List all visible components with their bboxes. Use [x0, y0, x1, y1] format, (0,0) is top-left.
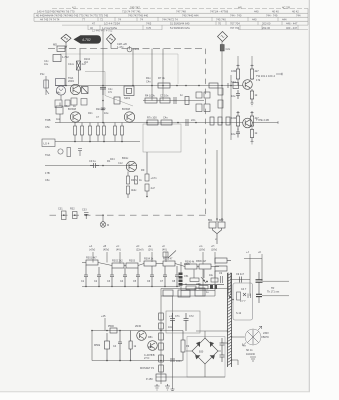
- svg-text:10u: 10u: [209, 274, 214, 277]
- svg-text:707 704: 707 704: [230, 26, 240, 30]
- table line 6 partial: [88, 29, 162, 31]
- svg-text:(4V): (4V): [162, 249, 167, 252]
- wire y165.5: [45, 165, 137, 167]
- wire from D1: [65, 42, 67, 48]
- vertical wire x103: [102, 29, 104, 123]
- svg-text:740 747/745 440: 740 747/745 440: [128, 14, 149, 18]
- svg-text:440: 440: [254, 9, 259, 13]
- svg-text:17B: 17B: [45, 171, 50, 175]
- diamond D3: [218, 32, 228, 42]
- svg-text:B01: B01: [208, 219, 213, 222]
- svg-text:R21: R21: [88, 112, 93, 115]
- svg-text:(16V): (16V): [211, 249, 217, 252]
- svg-text:R4 100k: R4 100k: [145, 94, 155, 98]
- svg-text:110/230: 110/230: [246, 353, 255, 356]
- svg-text:C9 1u: C9 1u: [89, 159, 96, 163]
- boxes top cluster: [163, 288, 205, 297]
- page edge bottom: [0, 391, 310, 393]
- table row text 2: [36, 14, 301, 18]
- svg-text:BD1x: BD1x: [122, 156, 129, 160]
- svg-text:R44: R44: [110, 158, 115, 161]
- dashed border bottom: [45, 214, 206, 216]
- label arrow 4-702: [74, 35, 102, 43]
- bottom bus left: [92, 360, 161, 362]
- caps row: [84, 265, 179, 287]
- svg-text:R303: R303: [129, 260, 136, 263]
- svg-text:744 - 749: 744 - 749: [266, 14, 278, 18]
- svg-text:47: 47: [92, 22, 95, 26]
- table row text 1: [37, 9, 299, 13]
- vertical wire x217: [216, 150, 218, 222]
- svg-text:12 446 447 4-702: 12 446 447 4-702: [92, 29, 113, 33]
- stage2 labels: [231, 116, 269, 136]
- small comp below switch: [250, 357, 256, 361]
- small antenna circle: [127, 47, 132, 52]
- svg-text:74: 74: [118, 18, 121, 22]
- svg-text:M56k: M56k: [94, 344, 101, 347]
- vertical wire x231: [230, 75, 232, 140]
- svg-text:1/2 4-4 72/54: 1/2 4-4 72/54: [104, 22, 120, 26]
- resistor row above y141 bus: [74, 123, 124, 142]
- left rail x92: [91, 331, 93, 361]
- wire out 1: [263, 280, 290, 282]
- pin labels: [89, 245, 217, 252]
- labels above R10: [146, 76, 165, 84]
- svg-text:77: 77: [82, 18, 85, 22]
- table line 4: [34, 20, 308, 22]
- svg-text:50Hz: 50Hz: [263, 336, 270, 339]
- grounds bottom: [155, 384, 175, 391]
- transistor T2: [70, 112, 80, 122]
- svg-text:P1x: P1x: [40, 72, 45, 76]
- svg-text:C4x: C4x: [146, 80, 151, 84]
- svg-text:R82: R82: [148, 346, 153, 349]
- svg-text:51 50/60/45 6x5x: 51 50/60/45 6x5x: [170, 26, 191, 30]
- left column box P: [56, 79, 66, 86]
- labels y117: [147, 116, 196, 123]
- svg-text:R81: R81: [148, 336, 153, 339]
- svg-text:140 4-702/745/748/749 7/6 770: 140 4-702/745/748/749 7/6 770: [37, 9, 75, 13]
- transistor T6 on y165: [126, 161, 136, 171]
- svg-text:100n: 100n: [176, 360, 182, 363]
- svg-text:100k: 100k: [231, 116, 237, 120]
- svg-text:40 440/444/44-74/745-74/7445-7: 40 440/444/44-74/745-74/7445-745 770 740…: [36, 14, 109, 18]
- table row text 3: [40, 18, 287, 22]
- svg-text:9 7 7: 9 7 7: [240, 300, 246, 303]
- right-of-border component grid: [196, 88, 223, 112]
- svg-text:(22eV): (22eV): [136, 249, 144, 252]
- svg-text:M: M: [107, 224, 109, 227]
- stage2 supply plus: [237, 111, 254, 114]
- svg-text:7c/5: 7c/5: [146, 26, 151, 30]
- svg-text:(45V): (45V): [103, 249, 109, 252]
- stage2 collector resistors: [236, 114, 253, 130]
- dashed border right: [205, 49, 207, 216]
- stage2 cap: [236, 129, 240, 138]
- svg-text:(+5V): (+5V): [89, 249, 95, 252]
- svg-text:C72: C72: [189, 315, 194, 318]
- screen box with diagonal: [85, 72, 133, 107]
- table row text 0: [72, 5, 290, 9]
- wire y165 components: cap: [90, 163, 99, 168]
- svg-text:C4 7: C4 7: [241, 288, 247, 291]
- long vertical wire x222: [221, 42, 223, 223]
- svg-text:744 74/72 74: 744 74/72 74: [162, 18, 178, 22]
- svg-text:74: 74: [140, 18, 143, 22]
- TR labels: [267, 287, 280, 294]
- svg-text:17k: 17k: [256, 78, 261, 82]
- chain labels: [86, 257, 195, 264]
- wire from D2: [110, 44, 112, 49]
- vertical wire x66: [65, 49, 67, 86]
- svg-text:400 - 447: 400 - 447: [286, 26, 298, 30]
- svg-text:Tb 171 xxx: Tb 171 xxx: [267, 291, 280, 294]
- feedback rect outline: [143, 124, 181, 152]
- left narrow switch element: [44, 76, 49, 95]
- svg-text:R7 4k: R7 4k: [158, 76, 165, 80]
- main bus y85.5: [55, 85, 243, 87]
- vertical comps bottom-left: [105, 331, 133, 361]
- left rail bottom block: [161, 289, 173, 389]
- dense regulator sub-circuit: [179, 273, 218, 290]
- svg-text:P-150: P-150: [146, 378, 153, 381]
- x161 column comps: [156, 313, 166, 381]
- bridge connections: [156, 331, 228, 377]
- components on bottom dashed rail: [62, 211, 106, 227]
- dark component on x222 wire top: [220, 45, 224, 52]
- svg-text:BC548: BC548: [68, 107, 76, 111]
- svg-text:100k: 100k: [231, 69, 237, 73]
- resistor chain row: [86, 260, 211, 269]
- svg-text:47n: 47n: [108, 91, 113, 94]
- mains transformer core: [228, 273, 232, 367]
- svg-text:C31: C31: [58, 208, 63, 211]
- svg-text:444: 444: [282, 18, 287, 22]
- diamond D2: [107, 34, 116, 44]
- transistor T1: [70, 84, 80, 94]
- caps right of bridge: [220, 338, 225, 362]
- svg-text:R32: R32: [70, 208, 75, 211]
- svg-text:4-702: 4-702: [82, 38, 91, 42]
- left column circle: [56, 86, 65, 95]
- svg-text:44 745 74 74 74: 44 745 74 74 74: [40, 18, 60, 22]
- svg-text:R304 1k: R304 1k: [144, 258, 154, 261]
- svg-text:1-702: 1-702: [62, 55, 69, 59]
- svg-text:(16V): (16V): [199, 249, 205, 252]
- table row text 5: [90, 26, 298, 30]
- svg-text:C1xx: C1xx: [68, 62, 75, 66]
- pin stems: [93, 252, 215, 265]
- svg-text:R301 4k7: R301 4k7: [86, 257, 97, 260]
- chain connecting wires: [82, 263, 219, 267]
- svg-text:2N30: 2N30: [135, 325, 142, 328]
- svg-text:R302 2k2: R302 2k2: [112, 260, 123, 263]
- wire out 2: [262, 295, 289, 297]
- S-switch box (double square): [124, 86, 134, 96]
- transistor T3: [124, 112, 134, 122]
- wire y141.5: [55, 141, 140, 143]
- comp at 228-237 on bus1: [228, 83, 239, 89]
- svg-text:C33: C33: [82, 209, 87, 212]
- table line 2: [34, 12, 308, 14]
- right cluster comps inside box: [237, 292, 251, 300]
- transistor T4: [243, 80, 253, 90]
- small circle + parts below LS: [58, 148, 82, 157]
- svg-text:C9 4n7: C9 4n7: [236, 273, 245, 276]
- stage1 emitter resistor: [250, 89, 253, 103]
- svg-text:(4V): (4V): [116, 249, 121, 252]
- svg-text:4k7: 4k7: [255, 69, 260, 73]
- stage2 emitter resistor: [250, 128, 253, 142]
- left cluster small parts: [55, 95, 70, 107]
- stage1 cap: [236, 90, 240, 99]
- svg-text:R505: R505: [184, 263, 190, 266]
- svg-text:C5x: C5x: [45, 125, 50, 129]
- svg-text:SK 11: SK 11: [246, 349, 253, 352]
- svg-text:2003: 2003: [68, 79, 74, 83]
- box with X beside T1: [82, 87, 89, 94]
- left +V labels: [101, 314, 173, 318]
- transistor T7: [137, 331, 147, 341]
- vertical wire x80: [79, 49, 81, 61]
- inner faint boundary: [60, 54, 178, 84]
- transistor T8: [148, 341, 158, 351]
- resistors below T6: [127, 172, 138, 199]
- svg-text:744 - 740: 744 - 740: [230, 14, 242, 18]
- svg-text:C71: C71: [175, 315, 180, 318]
- stage1 collector resistors: [236, 67, 253, 86]
- vertical wire x163: [162, 49, 164, 101]
- cap on wire y279: [240, 277, 242, 283]
- svg-text:R1: R1: [107, 159, 111, 163]
- x183 column: [181, 331, 185, 361]
- svg-text:B30: B30: [199, 351, 204, 354]
- transformer stubs: [221, 303, 245, 366]
- svg-text:202-00: 202-00: [262, 22, 271, 26]
- svg-text:MOSFET P1: MOSFET P1: [140, 367, 155, 370]
- cluster text: [40, 72, 76, 108]
- svg-text:S201: S201: [124, 96, 131, 100]
- svg-text:TW 101.1: TW 101.1: [256, 74, 268, 78]
- table line 5: [62, 24, 308, 26]
- table top dashed line: [52, 8, 308, 10]
- bus2 labels: [145, 93, 183, 98]
- top cluster wires: [161, 269, 230, 296]
- svg-text:TYPE 2.2B: TYPE 2.2B: [256, 118, 269, 122]
- svg-text:+K: +K: [258, 251, 261, 254]
- svg-text:70: 70: [218, 22, 221, 26]
- svg-text:446 - 447: 446 - 447: [286, 22, 298, 26]
- svg-text:R506 4k7: R506 4k7: [196, 260, 207, 263]
- labels above T2 T3: [68, 107, 130, 115]
- caps labels: [81, 280, 176, 283]
- svg-text:TDA: TDA: [45, 153, 50, 157]
- svg-text:4.2: 4.2: [72, 5, 76, 9]
- resistor on wire: [110, 328, 117, 333]
- svg-text:230V: 230V: [263, 332, 269, 335]
- cap on x172 rail: [170, 359, 175, 361]
- svg-text:C7 10n: C7 10n: [160, 94, 169, 98]
- svg-text:10n: 10n: [168, 326, 173, 329]
- stage1 labels: [231, 69, 275, 98]
- diamond D1: [61, 34, 71, 42]
- svg-text:(2V): (2V): [148, 249, 153, 252]
- table line 3: [34, 16, 308, 18]
- text cluster right of D2: [117, 42, 127, 49]
- comps on y122 wire: [147, 117, 230, 126]
- svg-text:C4x: C4x: [163, 116, 168, 120]
- svg-text:40 42: 40 42: [292, 9, 299, 13]
- svg-text:R9: R9: [141, 168, 145, 172]
- svg-text:10C.4: 10C.4: [268, 74, 275, 78]
- svg-text:745 740: 745 740: [216, 18, 226, 22]
- svg-text:740 7440 444: 740 7440 444: [182, 14, 199, 18]
- svg-text:LS 4: LS 4: [44, 142, 50, 146]
- bridge enclosure: [187, 337, 225, 378]
- vertical wire x133: [132, 49, 134, 86]
- svg-text:74/5: 74/5: [146, 22, 152, 26]
- resistor box R20 on bus1 right: [209, 83, 218, 88]
- svg-text:10u: 10u: [104, 111, 109, 115]
- right cluster of strip: [215, 258, 231, 271]
- resistor box R10 on bus1: [158, 83, 170, 88]
- table row text 4: [92, 22, 298, 26]
- input box 2: [53, 55, 61, 62]
- svg-text:2k2: 2k2: [84, 61, 89, 64]
- svg-text:7471/4 - 47769: 7471/4 - 47769: [210, 9, 229, 13]
- bus2 components: [145, 97, 189, 105]
- IF coil / transformer small: [228, 273, 231, 296]
- vertical wire x152: [151, 49, 153, 101]
- rotary switch: [245, 329, 261, 345]
- svg-text:+45: +45: [101, 314, 106, 318]
- svg-text:440: 440: [252, 18, 257, 22]
- resistor R-in with X: [77, 61, 81, 70]
- screen box (two caps): [166, 311, 200, 333]
- svg-text:40 40: 40 40: [272, 9, 279, 13]
- svg-text:P500: P500: [108, 325, 114, 328]
- svg-text:745 747: 745 747: [130, 5, 140, 9]
- svg-text:22n: 22n: [191, 118, 196, 122]
- junction dots upper: [65, 85, 232, 167]
- svg-text:NF1: NF1: [231, 80, 236, 84]
- transistor T5: [243, 118, 253, 128]
- svg-text:747 748: 747 748: [176, 9, 186, 13]
- left cluster under T1: comps between bus1 and y122: [56, 103, 63, 123]
- svg-text:TDB: TDB: [45, 118, 51, 122]
- svg-text:51 50/60/44 640: 51 50/60/44 640: [170, 22, 190, 26]
- svg-text:710 74 747 741: 710 74 747 741: [122, 9, 141, 13]
- svg-text:C2x: C2x: [226, 47, 231, 51]
- electrolytic cap C82: [256, 294, 262, 296]
- svg-text:B4c: B4c: [56, 91, 61, 95]
- svg-text:27 D: 27 D: [144, 357, 149, 360]
- svg-text:4k2x: 4k2x: [131, 188, 137, 192]
- stage2 output wire: [252, 122, 278, 124]
- svg-text:4/6: 4/6: [238, 5, 242, 9]
- stage2 ground: [251, 142, 254, 145]
- svg-text:72: 72: [100, 18, 103, 22]
- svg-text:744: 744: [296, 14, 301, 18]
- bridge rectifier: [192, 338, 218, 364]
- page edge right: [308, 0, 310, 392]
- LS box left: [42, 139, 55, 147]
- input box on border: [57, 46, 65, 52]
- wire y330: [92, 330, 161, 332]
- right enclosure box: [233, 283, 253, 320]
- svg-text:C201: C201: [133, 47, 140, 51]
- svg-text:C51: C51: [184, 275, 189, 278]
- svg-text:202-00: 202-00: [262, 26, 271, 30]
- svg-text:+C7x: +C7x: [151, 176, 158, 180]
- svg-text:MD: MD: [53, 43, 57, 47]
- svg-text:R7x 100: R7x 100: [147, 116, 157, 120]
- wire y122.5: [55, 122, 243, 124]
- cap on bus1 at x101: [100, 87, 106, 95]
- left texts middle: [45, 118, 51, 129]
- svg-text:C6x: C6x: [45, 178, 50, 182]
- electrolytic cap C81: [256, 280, 263, 282]
- svg-text:4u7: 4u7: [151, 186, 156, 190]
- labels near input: [53, 43, 86, 84]
- svg-text:10u: 10u: [231, 94, 236, 98]
- strip wires right: [232, 259, 263, 297]
- svg-text:R1x: R1x: [146, 76, 151, 80]
- svg-text:4C 7/8: 4C 7/8: [282, 5, 290, 9]
- svg-text:R2x 4k7: R2x 4k7: [96, 107, 106, 111]
- column x145 comps below: [145, 152, 149, 197]
- svg-text:S.12: S.12: [236, 312, 242, 315]
- svg-text:10u: 10u: [231, 132, 236, 136]
- bus y100.5: [143, 100, 204, 102]
- bottom bus of strip: [82, 286, 180, 288]
- stage1 ground: [251, 103, 254, 106]
- svg-text:R47x: R47x: [131, 178, 138, 182]
- svg-text:C12: C12: [118, 162, 123, 165]
- svg-text:707 704: 707 704: [230, 22, 240, 26]
- svg-text:BC548: BC548: [122, 107, 130, 111]
- stage1 supply plus: [237, 64, 254, 67]
- svg-text:10u: 10u: [44, 63, 49, 66]
- dashed border top: [48, 48, 206, 50]
- table tick marks: [34, 9, 308, 30]
